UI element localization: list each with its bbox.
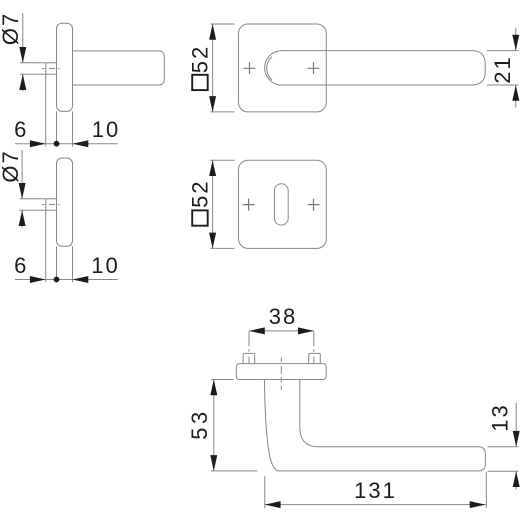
view E: 53 arrows: [210, 380, 217, 396]
view B: sq52 arrows: [209, 24, 216, 40]
svg-text:52: 52: [188, 45, 213, 73]
view E: 13 arrows: [513, 431, 520, 447]
view D: 6/10 arrows: [30, 276, 46, 283]
view D: dia7 extension lines: [19, 199, 46, 210]
view B: 21 extension lines: [487, 51, 519, 85]
view A: handle grip side: [73, 51, 165, 85]
view A: spindle centerline: [42, 68, 60, 70]
view E: 38 dimension line: [249, 330, 314, 332]
view A: 6/10 junction dot: [54, 141, 60, 147]
view C: right cross: [308, 199, 320, 211]
svg-text:131: 131: [354, 478, 397, 503]
svg-text:21: 21: [490, 55, 515, 83]
view A: dia7 dimension line: [22, 13, 24, 92]
view B: left cross: [244, 62, 256, 74]
svg-text:10: 10: [91, 253, 119, 278]
view C: left cross: [243, 199, 255, 211]
view A: handle side view rose slab: [57, 23, 73, 111]
view C: sq52 square symbol: [192, 210, 208, 225]
view A: 6/10 extension lines: [46, 74, 73, 146]
view A: spindle stub: [46, 63, 57, 74]
svg-text:10: 10: [92, 117, 120, 142]
view B: sq52 extension lines: [210, 24, 234, 112]
view E: 131 extension lines: [265, 472, 487, 509]
svg-text:6: 6: [14, 253, 28, 278]
view C: key rose: [239, 160, 327, 248]
view A: 6/10 dimension line: [15, 143, 118, 145]
view C: sq52 arrows: [209, 160, 216, 176]
view E: right screw centerline: [313, 331, 315, 363]
view B: right cross: [308, 62, 320, 74]
svg-text:Ø7: Ø7: [0, 12, 23, 45]
view B: 21 arrows: [512, 35, 519, 51]
view C: sq52 extension lines: [210, 160, 234, 248]
view A: dia7 arrows: [19, 47, 26, 63]
view D: spindle stub: [46, 199, 57, 210]
view B: front rose: [239, 24, 327, 112]
view D: 6/10 extension lines: [46, 210, 73, 282]
view E: 53 extension lines: [211, 380, 258, 471]
view E: 13 extension lines: [488, 447, 519, 472]
svg-text:53: 53: [187, 408, 212, 439]
view E: right screw boss: [309, 353, 321, 363]
view E: rose bar top view: [236, 364, 326, 380]
view E: left screw boss: [243, 353, 255, 363]
view C: keyhole: [274, 184, 288, 225]
view D: dia7 arrows: [19, 183, 26, 199]
view E: handle top-view outline: [264, 380, 485, 471]
view A: 6/10 arrows: [30, 140, 46, 147]
svg-text:6: 6: [14, 117, 28, 142]
view D: dia7 dimension line: [21, 150, 23, 228]
view A: dia7 extension lines: [20, 63, 46, 74]
view E: 38 arrows: [249, 327, 265, 334]
svg-text:Ø7: Ø7: [0, 149, 23, 182]
view B: sq52 square symbol: [192, 75, 208, 90]
view B: sq52 dimension line: [212, 24, 214, 112]
view D: 6/10 dimension line: [15, 279, 118, 281]
view E: 131 arrows: [265, 501, 281, 508]
view D: escutcheon side view rose slab: [57, 158, 73, 246]
view B: lever handle outline: [265, 51, 486, 85]
view C: sq52 dimension line: [212, 160, 214, 248]
view E: 13 dimension line: [515, 403, 517, 490]
view B: 21 dimension line: [515, 28, 517, 108]
cross marks: [243, 62, 320, 210]
view E: 131 dimension line: [265, 504, 486, 506]
svg-text:52: 52: [188, 179, 213, 207]
view D: 6/10 junction dot: [54, 277, 60, 283]
view D: spindle centerline: [42, 204, 60, 206]
svg-text:38: 38: [269, 304, 297, 329]
view E: bar centerline: [280, 358, 282, 391]
view E: left screw centerline: [248, 331, 250, 363]
view B: lever neck dome arc: [267, 57, 272, 80]
view E: 53 dimension line: [213, 380, 215, 471]
svg-text:13: 13: [488, 403, 513, 431]
